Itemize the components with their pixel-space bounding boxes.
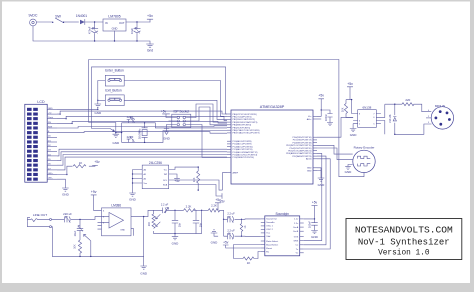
svg-text:+5v: +5v — [312, 201, 318, 205]
svg-text:24LC256: 24LC256 — [149, 161, 162, 165]
svg-text:OUT: OUT — [119, 21, 125, 25]
svg-text:GND: GND — [62, 192, 70, 196]
svg-text:+5v: +5v — [161, 109, 167, 113]
svg-text:R/W: R/W — [48, 126, 52, 128]
svg-text:PB1(OC1A/PCINT1): PB1(OC1A/PCINT1) — [233, 116, 252, 119]
svg-text:SDA: SDA — [163, 183, 168, 186]
svg-text:PD3(INT1/OC2B/PCINT19): PD3(INT1/OC2B/PCINT19) — [286, 145, 312, 147]
svg-text:Baud Select: Baud Select — [266, 243, 278, 246]
svg-text:LED-: LED- — [48, 178, 53, 180]
svg-text:PC1(ADC1/PCINT9): PC1(ADC1/PCINT9) — [233, 143, 252, 146]
svg-text:ADC6: ADC6 — [306, 158, 312, 161]
svg-text:1N4148: 1N4148 — [389, 114, 392, 123]
svg-text:Exit_Button: Exit_Button — [105, 89, 122, 93]
svg-text:PB4(MISO/PCINT4): PB4(MISO/PCINT4) — [233, 125, 252, 127]
svg-text:PB0(ICP1/CLKO/PCINT0): PB0(ICP1/CLKO/PCINT0) — [233, 114, 257, 116]
svg-text:PD5(T1/OC0B/PCINT21): PD5(T1/OC0B/PCINT21) — [288, 151, 312, 153]
svg-text:NOTESANDVOLTS.COM: NOTESANDVOLTS.COM — [355, 225, 453, 236]
svg-text:+5v: +5v — [215, 198, 221, 202]
svg-text:Soundgin: Soundgin — [275, 212, 289, 216]
svg-text:PC0(ADC0/PCINT8): PC0(ADC0/PCINT8) — [233, 140, 252, 143]
svg-text:Vcc: Vcc — [164, 169, 167, 171]
svg-text:GND: GND — [120, 229, 125, 231]
svg-text:6N138: 6N138 — [362, 106, 371, 110]
svg-text:10K: 10K — [148, 221, 151, 226]
svg-text:LINE OUT: LINE OUT — [33, 213, 47, 217]
svg-text:9vDC: 9vDC — [29, 13, 38, 17]
svg-text:SoundIn: SoundIn — [266, 222, 275, 224]
svg-text:NoV-1 Synthesizer: NoV-1 Synthesizer — [358, 238, 450, 248]
svg-text:OSC 2: OSC 2 — [266, 229, 273, 231]
svg-text:SW: SW — [55, 15, 61, 19]
svg-text:LM386: LM386 — [111, 204, 121, 208]
svg-text:Contr: Contr — [48, 116, 53, 119]
svg-text:PD1(TXD/PCINT17): PD1(TXD/PCINT17) — [293, 140, 312, 142]
svg-text:1K: 1K — [79, 161, 83, 165]
svg-text:PD7(AIN1/PCINT23): PD7(AIN1/PCINT23) — [292, 155, 311, 158]
svg-text:GND: GND — [345, 170, 353, 174]
svg-text:PC5(ADC5/SCL/PCINT13): PC5(ADC5/SCL/PCINT13) — [233, 154, 258, 157]
svg-text:PC2(ADC2/PCINT10): PC2(ADC2/PCINT10) — [233, 145, 253, 148]
svg-text:Ratio Select: Ratio Select — [266, 240, 278, 243]
svg-text:PD6(AIN0/OC0A/PCINT22): PD6(AIN0/OC0A/PCINT22) — [286, 152, 312, 155]
svg-text:+5v: +5v — [318, 94, 324, 98]
svg-text:2.2 uF: 2.2 uF — [227, 212, 235, 216]
svg-text:2.2 uF: 2.2 uF — [227, 229, 235, 233]
svg-text:10n: 10n — [179, 222, 182, 227]
svg-text:ATMEGA328P: ATMEGA328P — [260, 105, 285, 109]
svg-text:GND: GND — [112, 141, 120, 145]
svg-text:+9v: +9v — [91, 190, 97, 194]
svg-text:Gnd: Gnd — [147, 48, 153, 52]
svg-text:PC6(RESET/PCINT14): PC6(RESET/PCINT14) — [233, 157, 255, 159]
svg-text:IN: IN — [105, 21, 108, 25]
svg-text:PB3(MOSI/OC2A/PCINT3): PB3(MOSI/OC2A/PCINT3) — [233, 121, 258, 124]
svg-text:GND: GND — [307, 168, 312, 170]
svg-text:AVcc: AVcc — [307, 118, 312, 121]
svg-text:GND: GND — [211, 241, 219, 245]
svg-text:PB6(XTAL1/TOSC1/PCINT6): PB6(XTAL1/TOSC1/PCINT6) — [233, 129, 260, 132]
svg-text:MIDI IN: MIDI IN — [435, 104, 445, 108]
svg-text:GND: GND — [140, 272, 148, 276]
svg-text:GRX: GRX — [293, 240, 298, 242]
svg-text:GND: GND — [311, 235, 319, 239]
svg-text:GND: GND — [172, 242, 180, 246]
svg-text:PC3(ADC3/PCINT11): PC3(ADC3/PCINT11) — [233, 148, 253, 151]
svg-text:220 uF: 220 uF — [63, 212, 72, 216]
svg-text:+5v: +5v — [223, 240, 229, 244]
svg-text:1N4001: 1N4001 — [76, 14, 87, 18]
svg-text:100nF: 100nF — [309, 220, 312, 228]
svg-text:PD0(RXD/PCINT16): PD0(RXD/PCINT16) — [293, 137, 312, 139]
svg-text:GND: GND — [129, 198, 137, 202]
svg-text:220: 220 — [405, 98, 410, 102]
svg-text:Reset: Reset — [266, 247, 272, 250]
svg-text:Enter_Button: Enter_Button — [105, 69, 124, 73]
svg-text:+5v: +5v — [147, 14, 153, 18]
svg-text:Vcc: Vcc — [308, 116, 311, 118]
svg-text:Vss: Vss — [144, 183, 147, 185]
svg-text:PB5(SCK/PCINT5): PB5(SCK/PCINT5) — [233, 127, 251, 129]
svg-text:+5v: +5v — [347, 82, 353, 86]
svg-text:16.0MHz: 16.0MHz — [138, 128, 142, 139]
svg-text:PB2(SS/OC1B/PCINT2): PB2(SS/OC1B/PCINT2) — [233, 119, 256, 121]
svg-text:470uF: 470uF — [87, 26, 91, 34]
svg-text:PD2(INT0/PCINT18): PD2(INT0/PCINT18) — [292, 142, 311, 144]
svg-text:AREF: AREF — [233, 172, 239, 175]
svg-text:OSC 1: OSC 1 — [266, 226, 273, 228]
svg-text:+5v: +5v — [174, 179, 180, 183]
svg-text:LCD: LCD — [37, 100, 45, 104]
svg-text:Sound Out: Sound Out — [266, 218, 277, 221]
svg-text:10K: 10K — [193, 177, 196, 182]
svg-text:GND: GND — [94, 111, 102, 115]
svg-text:GND: GND — [48, 108, 53, 110]
svg-text:ISP Socket: ISP Socket — [173, 110, 189, 114]
svg-text:LED+: LED+ — [48, 173, 54, 175]
svg-text:Rotary Encoder: Rotary Encoder — [354, 146, 375, 150]
svg-text:GND: GND — [307, 170, 312, 172]
svg-text:10n: 10n — [200, 222, 203, 227]
svg-text:GND: GND — [163, 136, 171, 140]
svg-text:10K: 10K — [342, 107, 345, 112]
svg-text:1K: 1K — [247, 261, 251, 265]
svg-text:OscB: OscB — [293, 231, 299, 233]
svg-text:Version 1.0: Version 1.0 — [378, 249, 430, 257]
svg-text:OscA: OscA — [293, 226, 299, 229]
svg-text:2.2 uF: 2.2 uF — [161, 203, 169, 207]
svg-text:10uF: 10uF — [74, 230, 77, 236]
svg-text:PC4(ADC4/SDA/PCINT12): PC4(ADC4/SDA/PCINT12) — [233, 151, 258, 154]
svg-text:PB7(XTAL2/TOSC2/PCINT7): PB7(XTAL2/TOSC2/PCINT7) — [233, 132, 260, 135]
svg-text:PD4(XCK/T0/PCINT20): PD4(XCK/T0/PCINT20) — [290, 148, 312, 150]
svg-text:GND: GND — [318, 183, 326, 187]
svg-text:GTX: GTX — [294, 236, 299, 238]
svg-text:2.2K: 2.2K — [186, 204, 192, 208]
svg-text:100nF: 100nF — [325, 113, 328, 121]
svg-text:10K: 10K — [74, 244, 77, 249]
svg-text:+5v: +5v — [94, 160, 100, 164]
svg-text:2.2K: 2.2K — [211, 203, 217, 207]
svg-text:LM7805: LM7805 — [108, 14, 120, 18]
svg-text:GND: GND — [350, 133, 358, 137]
svg-text:10uF: 10uF — [130, 28, 134, 34]
svg-text:GND: GND — [112, 26, 118, 30]
svg-text:1K: 1K — [244, 225, 247, 228]
